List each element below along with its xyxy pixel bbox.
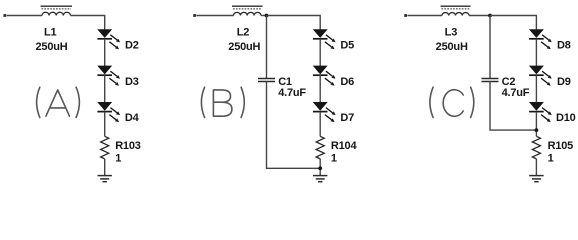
R104 value 1 (331, 153, 337, 165)
L2 value 250uH (228, 41, 260, 53)
resistor R105 (532, 136, 540, 159)
svg-text:4.7uF: 4.7uF (502, 87, 530, 99)
D2 label (125, 39, 139, 51)
L1 label (44, 27, 57, 39)
R103 value 1 (115, 153, 121, 165)
D3 label (125, 76, 139, 88)
wire (104, 112, 106, 137)
svg-text:D10: D10 (556, 112, 576, 124)
wire (490, 16, 536, 30)
LED D4 (97, 102, 120, 122)
wire (267, 82, 321, 169)
junction node B-bottom (318, 166, 322, 170)
LED D3 (97, 66, 120, 86)
LED D10 (529, 102, 552, 122)
svg-text:D8: D8 (557, 39, 571, 51)
input terminal C (404, 14, 407, 17)
D5 label (340, 39, 354, 51)
ground (98, 176, 112, 182)
resistor R103 (101, 136, 109, 159)
input terminal A (3, 14, 6, 17)
svg-text:R103: R103 (115, 140, 141, 152)
svg-text:D3: D3 (125, 76, 139, 88)
L1 value 250uH (35, 41, 67, 53)
section label (A) (37, 87, 80, 117)
wire (319, 39, 321, 66)
capacitor C2 (482, 79, 499, 82)
svg-text:R105: R105 (548, 140, 574, 152)
LED D2 (97, 30, 120, 50)
wire (104, 159, 106, 176)
C2 value 4.7uF (502, 87, 530, 99)
svg-text:D2: D2 (125, 39, 139, 51)
wire (7, 15, 42, 17)
wire (104, 39, 106, 66)
LED D7 (313, 102, 336, 122)
wire (71, 16, 105, 30)
C2 label (502, 76, 516, 88)
wire (490, 82, 536, 131)
wire (407, 15, 442, 17)
wire (319, 159, 321, 176)
LED D9 (529, 66, 552, 86)
D8 label (557, 39, 571, 51)
svg-text:L1: L1 (44, 27, 57, 39)
svg-text:L3: L3 (445, 27, 458, 39)
section label (B) (201, 87, 244, 117)
D9 label (557, 76, 571, 88)
svg-text:250uH: 250uH (436, 41, 468, 53)
C1 label (278, 76, 292, 88)
L2 label (237, 27, 250, 39)
D10 label (556, 112, 576, 124)
input terminal B (193, 14, 196, 17)
wire (319, 112, 321, 137)
junction node B-top (265, 14, 269, 18)
wire (469, 15, 490, 17)
svg-text:250uH: 250uH (228, 41, 260, 53)
D6 label (340, 76, 354, 88)
svg-text:L2: L2 (237, 27, 250, 39)
wire (535, 75, 537, 102)
svg-text:4.7uF: 4.7uF (278, 87, 306, 99)
junction node C-top (488, 14, 492, 18)
R105 label (548, 140, 574, 152)
junction node C-mid (535, 128, 539, 132)
wire (261, 15, 267, 17)
wire (104, 75, 106, 102)
wire (266, 16, 268, 79)
L3 label (445, 27, 458, 39)
svg-text:D5: D5 (340, 39, 354, 51)
inductor L3 (441, 6, 471, 15)
ground (313, 176, 327, 182)
R104 label (331, 140, 358, 152)
resistor R104 (316, 136, 324, 159)
svg-text:C2: C2 (502, 76, 516, 88)
wire (535, 39, 537, 66)
svg-text:D7: D7 (340, 112, 354, 124)
LED D6 (313, 66, 336, 86)
wire (196, 15, 233, 17)
svg-text:1: 1 (331, 153, 337, 165)
wire (535, 112, 537, 137)
svg-text:R104: R104 (331, 140, 358, 152)
svg-text:1: 1 (115, 153, 121, 165)
inductor L2 (232, 6, 263, 15)
wire (267, 16, 321, 30)
ground (529, 176, 543, 182)
svg-text:D4: D4 (125, 112, 140, 124)
D7 label (340, 112, 354, 124)
svg-text:250uH: 250uH (35, 41, 67, 53)
C1 value 4.7uF (278, 87, 306, 99)
wire (535, 159, 537, 176)
svg-text:D6: D6 (340, 76, 354, 88)
section label (C) (430, 87, 474, 117)
wire (319, 75, 321, 102)
wire (489, 16, 491, 79)
R105 value 1 (548, 153, 554, 165)
svg-text:D9: D9 (557, 76, 571, 88)
LED D8 (529, 30, 552, 50)
capacitor C1 (258, 79, 275, 82)
R103 label (115, 140, 141, 152)
LED D5 (313, 30, 336, 50)
svg-text:C1: C1 (278, 76, 292, 88)
L3 value 250uH (436, 41, 468, 53)
inductor L1 (41, 6, 73, 15)
svg-text:1: 1 (548, 153, 554, 165)
D4 label (125, 112, 140, 124)
